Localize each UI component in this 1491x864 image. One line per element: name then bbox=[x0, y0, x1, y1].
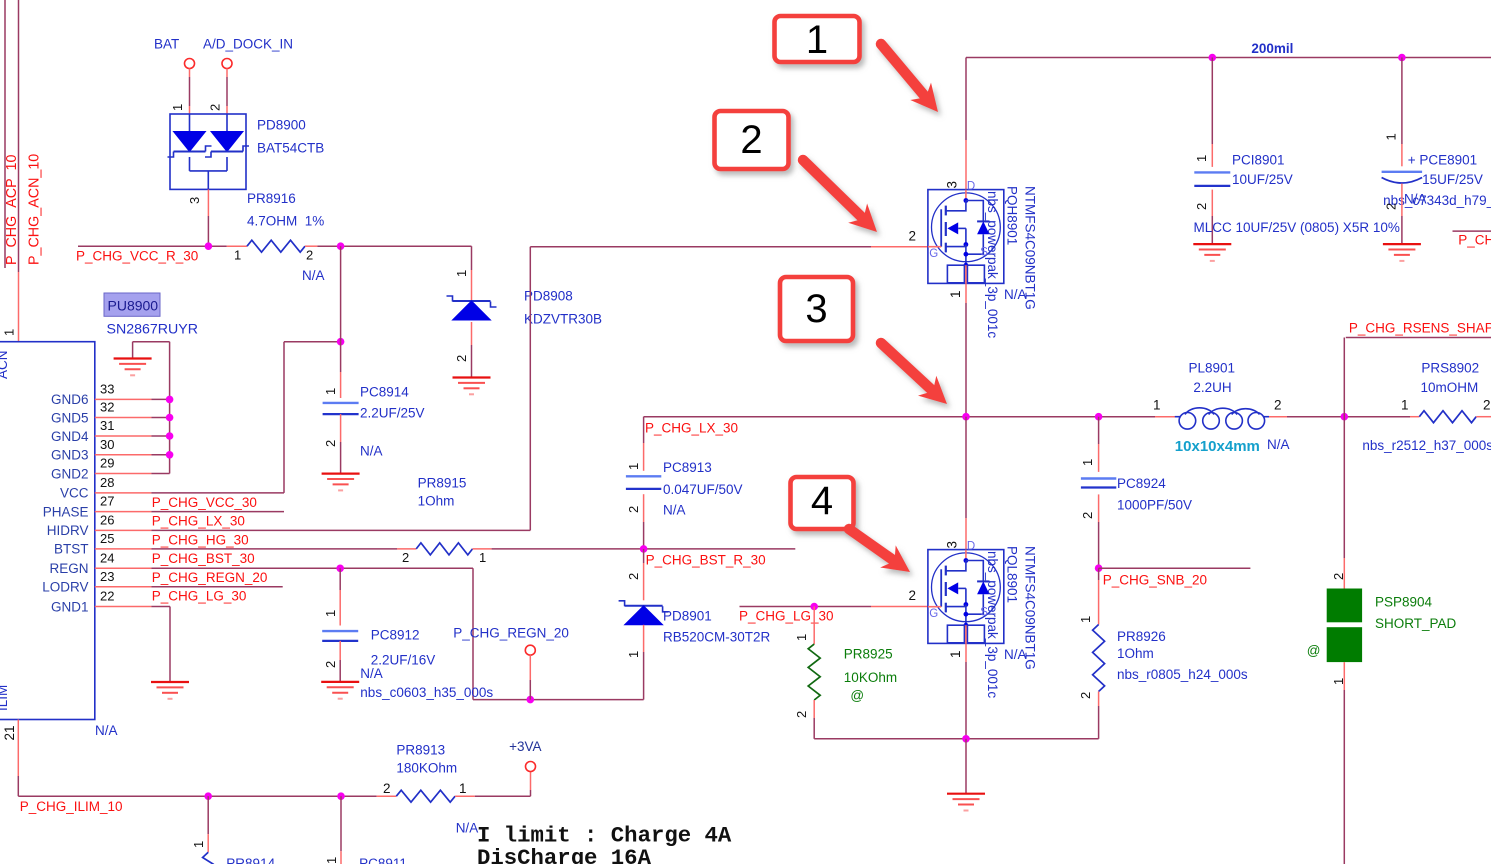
wire PQH8901 source to LX bbox=[965, 283, 967, 303]
svg-text:P_CHG_ACP_10: P_CHG_ACP_10 bbox=[4, 154, 20, 265]
wire PD8908 anode to ground bbox=[471, 322, 473, 345]
svg-text:P_CH: P_CH bbox=[1458, 233, 1491, 248]
svg-text:1Ohm: 1Ohm bbox=[418, 494, 455, 509]
wire PQH8901 drain bbox=[965, 58, 967, 141]
svg-text:PR8913: PR8913 bbox=[396, 743, 445, 758]
svg-text:2: 2 bbox=[626, 573, 641, 580]
svg-text:1: 1 bbox=[234, 248, 241, 263]
svg-text:1: 1 bbox=[626, 463, 641, 470]
wire to PC8911 bbox=[340, 796, 342, 851]
svg-text:nbs_powerpak_3p_001c: nbs_powerpak_3p_001c bbox=[985, 191, 1000, 338]
svg-text:2: 2 bbox=[208, 104, 223, 111]
pin line GND4 bbox=[95, 435, 152, 437]
pin line HIDRV bbox=[95, 529, 152, 531]
wire RSENS column down bbox=[1343, 338, 1345, 559]
svg-text:1: 1 bbox=[454, 270, 469, 277]
wire top 200mil net bbox=[966, 57, 1491, 59]
ground below PC8914 bbox=[322, 474, 360, 491]
wire to PR8914 bbox=[207, 796, 209, 834]
svg-text:2: 2 bbox=[383, 781, 391, 796]
pin line GND1 bbox=[95, 606, 152, 608]
svg-text:2: 2 bbox=[1194, 203, 1209, 210]
resistor PR8916 4.7OHM bbox=[247, 240, 305, 252]
svg-text:2: 2 bbox=[306, 248, 313, 263]
svg-text:10KOhm: 10KOhm bbox=[844, 670, 897, 685]
svg-text:2: 2 bbox=[402, 550, 409, 565]
svg-text:N/A: N/A bbox=[360, 666, 383, 681]
junction to VCC branch bbox=[337, 242, 345, 250]
wire A/D_DOCK_IN to PD8900 pin2 bbox=[226, 69, 228, 78]
svg-text:P_CHG_LG_30: P_CHG_LG_30 bbox=[152, 589, 247, 604]
svg-text:1: 1 bbox=[323, 610, 338, 617]
svg-text:PR8925: PR8925 bbox=[844, 647, 893, 662]
wire P_CHG_ILIM_10 bbox=[18, 795, 376, 797]
svg-text:1000PF/50V: 1000PF/50V bbox=[1117, 498, 1192, 513]
svg-text:2: 2 bbox=[1274, 398, 1282, 413]
pin line REGN bbox=[95, 567, 152, 569]
junction PR8925 bbox=[810, 603, 818, 611]
svg-text:1: 1 bbox=[1080, 459, 1095, 466]
resistor PR8925 10KOhm bbox=[813, 607, 815, 645]
capacitor PCI8901 10UF/25V bbox=[1194, 172, 1230, 186]
wire LX corner down to PC8913 bbox=[643, 417, 645, 443]
svg-text:N/A: N/A bbox=[1004, 647, 1027, 662]
junction PCE8901 bbox=[1398, 54, 1406, 62]
arrow 2 bbox=[803, 160, 877, 232]
wire after PL8901 bbox=[1269, 416, 1287, 418]
wire to power ground bbox=[965, 739, 967, 794]
GND bus top horizontal bbox=[133, 341, 170, 343]
ground below PQL8901 bbox=[947, 794, 985, 811]
junction LX at PQH source bbox=[962, 413, 970, 421]
svg-text:3: 3 bbox=[945, 541, 960, 549]
wire to PCI8901 bbox=[1211, 58, 1213, 145]
svg-text:P_CHG_HG_30: P_CHG_HG_30 bbox=[152, 532, 249, 547]
wire to PC8914 bbox=[340, 342, 342, 372]
svg-text:PU8900: PU8900 bbox=[108, 298, 159, 314]
wire to PCE8901 bbox=[1401, 58, 1403, 145]
svg-text:200mil: 200mil bbox=[1251, 41, 1293, 56]
svg-text:2: 2 bbox=[323, 661, 338, 668]
svg-text:25: 25 bbox=[100, 531, 114, 546]
svg-text:PCI8901: PCI8901 bbox=[1232, 153, 1285, 168]
callout 4 bbox=[791, 477, 854, 529]
svg-text:DisCharge 16A: DisCharge 16A bbox=[477, 845, 652, 864]
svg-text:PR8914: PR8914 bbox=[226, 856, 275, 864]
pin line LODRV bbox=[95, 586, 152, 588]
wire LX to PC8924 bbox=[1098, 417, 1100, 444]
svg-text:1: 1 bbox=[479, 550, 486, 565]
junction at PD8900 pin3 bbox=[205, 242, 213, 250]
junction GND3 bbox=[166, 451, 174, 459]
junction at RSENS column bbox=[1341, 413, 1349, 421]
svg-text:PC8924: PC8924 bbox=[1117, 476, 1166, 491]
junction PR8914 bbox=[204, 792, 212, 800]
svg-text:1: 1 bbox=[806, 18, 828, 62]
svg-text:PSP8904: PSP8904 bbox=[1375, 595, 1433, 610]
svg-text:2: 2 bbox=[323, 440, 338, 447]
transistor PQL8901 NTMFS4C09NBT1G bbox=[928, 540, 1004, 643]
svg-text:nbs_c7343d_h79_: nbs_c7343d_h79_ bbox=[1383, 193, 1491, 208]
svg-text:1: 1 bbox=[794, 634, 809, 641]
svg-text:PQL8901: PQL8901 bbox=[1005, 546, 1020, 603]
svg-text:N/A: N/A bbox=[1004, 287, 1027, 302]
wire P_CHG_ACP_10 vertical bbox=[4, 0, 6, 268]
svg-text:BTST: BTST bbox=[54, 542, 89, 557]
svg-text:P_CHG_BST_R_30: P_CHG_BST_R_30 bbox=[646, 553, 766, 568]
svg-text:1: 1 bbox=[1078, 616, 1093, 623]
svg-text:2: 2 bbox=[454, 355, 469, 362]
resistor PR8915 1Ohm bbox=[397, 548, 416, 550]
svg-text:P_CHG_REGN_20: P_CHG_REGN_20 bbox=[152, 570, 268, 585]
diode PD8901 RB520CM-30T2R bbox=[619, 601, 669, 625]
highlight PU8900 bbox=[104, 293, 160, 316]
junction GND6 bbox=[166, 396, 174, 404]
svg-text:180KOhm: 180KOhm bbox=[396, 761, 457, 776]
svg-text:2: 2 bbox=[1078, 692, 1093, 699]
resistor PR8926 1Ohm bbox=[1093, 625, 1105, 692]
svg-text:@: @ bbox=[1307, 643, 1321, 658]
pin line BTST bbox=[95, 548, 152, 550]
svg-text:2: 2 bbox=[740, 118, 762, 162]
svg-text:PD8901: PD8901 bbox=[663, 609, 712, 624]
pin 21 ILIM stub bbox=[17, 720, 19, 777]
wire P_CHG stub right edge bbox=[1453, 230, 1491, 232]
svg-text:D: D bbox=[967, 540, 975, 552]
junction source rail bbox=[962, 735, 970, 743]
junction PCI8901 bbox=[1209, 54, 1217, 62]
svg-text:PD8908: PD8908 bbox=[524, 289, 573, 304]
terminal P_CHG_REGN_20 bbox=[525, 645, 535, 655]
svg-text:BAT: BAT bbox=[154, 37, 179, 52]
arrow 3 bbox=[881, 343, 947, 404]
svg-text:PR8916: PR8916 bbox=[247, 191, 296, 206]
svg-text:10UF/25V: 10UF/25V bbox=[1232, 172, 1293, 187]
svg-text:P_CHG_VCC_30: P_CHG_VCC_30 bbox=[152, 495, 257, 510]
short pad PSP8904 bbox=[1327, 589, 1362, 623]
svg-text:1: 1 bbox=[2, 329, 17, 336]
diode PD8908 KDZVTR30B bbox=[447, 296, 497, 320]
svg-text:27: 27 bbox=[100, 494, 114, 509]
svg-text:SN2867RUYR: SN2867RUYR bbox=[107, 321, 198, 337]
wire after PR8916 bbox=[305, 245, 317, 247]
junction PC8912 bbox=[336, 565, 344, 573]
svg-text:RB520CM-30T2R: RB520CM-30T2R bbox=[663, 630, 771, 645]
svg-text:GND1: GND1 bbox=[51, 599, 89, 614]
wire to PC8912 bbox=[339, 568, 341, 590]
svg-text:nbs_powerpak_3p_001c: nbs_powerpak_3p_001c bbox=[985, 551, 1000, 698]
svg-text:1: 1 bbox=[948, 650, 963, 658]
junction P_CHG_SNB_20 bbox=[1095, 564, 1103, 572]
wire P_CHG_LX_30 bbox=[644, 416, 1155, 418]
wire P_CHG_HG_30 vertical bbox=[529, 247, 531, 531]
svg-text:1: 1 bbox=[324, 857, 339, 864]
svg-text:1: 1 bbox=[459, 781, 467, 796]
svg-text:GND4: GND4 bbox=[51, 429, 89, 444]
svg-text:MLCC 10UF/25V (0805) X5R 10%: MLCC 10UF/25V (0805) X5R 10% bbox=[1194, 220, 1400, 235]
ground at GND bus bbox=[132, 342, 134, 359]
svg-text:ACN: ACN bbox=[0, 350, 10, 379]
junction REGN terminal bbox=[527, 696, 535, 704]
svg-text:PC8914: PC8914 bbox=[360, 385, 409, 400]
svg-text:29: 29 bbox=[100, 456, 114, 471]
svg-text:N/A: N/A bbox=[1404, 192, 1427, 207]
svg-text:1: 1 bbox=[1153, 398, 1161, 413]
svg-text:P_CHG_LX_30: P_CHG_LX_30 bbox=[152, 514, 245, 529]
ground below PCI8901 bbox=[1193, 244, 1231, 261]
svg-text:10mOHM: 10mOHM bbox=[1421, 380, 1479, 395]
junction GND5 bbox=[166, 414, 174, 422]
svg-text:BAT54CTB: BAT54CTB bbox=[257, 141, 324, 156]
svg-text:PR8926: PR8926 bbox=[1117, 629, 1166, 644]
ground below PC8912 bbox=[321, 682, 359, 699]
svg-text:P_CHG_ILIM_10: P_CHG_ILIM_10 bbox=[20, 799, 123, 814]
resistor PR8914 partial bbox=[203, 852, 214, 864]
junction GND4 bbox=[166, 432, 174, 440]
svg-text:23: 23 bbox=[100, 569, 114, 584]
svg-text:REGN: REGN bbox=[49, 561, 88, 576]
svg-text:2: 2 bbox=[909, 588, 917, 603]
svg-text:PC8911: PC8911 bbox=[359, 856, 407, 864]
ground at GND1 bbox=[151, 682, 189, 699]
capacitor PC8913 0.047UF/50V bbox=[626, 476, 661, 489]
junction VCC node bbox=[337, 338, 345, 346]
svg-text:22: 22 bbox=[100, 589, 114, 604]
svg-text:PC8913: PC8913 bbox=[663, 460, 712, 475]
svg-text:G: G bbox=[929, 248, 938, 260]
svg-text:N/A: N/A bbox=[663, 503, 686, 518]
svg-text:3: 3 bbox=[187, 197, 202, 204]
svg-text:3: 3 bbox=[805, 287, 827, 331]
ground below PCE8901 bbox=[1383, 244, 1421, 261]
pin line GND2 bbox=[95, 473, 152, 475]
svg-text:N/A: N/A bbox=[302, 268, 325, 283]
svg-text:1: 1 bbox=[191, 841, 206, 848]
wire PQL8901 source down bbox=[965, 643, 967, 662]
pin line PHASE bbox=[95, 511, 152, 513]
svg-text:KDZVTR30B: KDZVTR30B bbox=[524, 312, 602, 327]
svg-text:GND2: GND2 bbox=[51, 466, 89, 481]
svg-text:10x10x4mm: 10x10x4mm bbox=[1175, 438, 1260, 455]
wire source rail bbox=[814, 738, 1098, 740]
svg-text:21: 21 bbox=[2, 725, 17, 740]
svg-text:PD8900: PD8900 bbox=[257, 118, 306, 133]
svg-text:SHORT_PAD: SHORT_PAD bbox=[1375, 616, 1457, 631]
svg-text:2: 2 bbox=[1483, 398, 1491, 413]
svg-text:24: 24 bbox=[100, 550, 114, 565]
wire PQL8901 drain bbox=[965, 417, 967, 518]
callout 1 bbox=[775, 16, 860, 62]
svg-text:PL8901: PL8901 bbox=[1189, 361, 1236, 376]
svg-text:4.7OHM 1%: 4.7OHM 1% bbox=[247, 214, 324, 229]
wire GND1 down bbox=[169, 607, 171, 683]
wire P_CHG_HG_30 to PQH8901 gate bbox=[530, 246, 871, 248]
wire P_CHG_RSENS_SHAPE bbox=[1346, 337, 1491, 339]
svg-text:nbs_c0603_h35_000s: nbs_c0603_h35_000s bbox=[360, 685, 493, 700]
svg-text:2: 2 bbox=[1384, 203, 1399, 210]
svg-text:GND6: GND6 bbox=[51, 392, 89, 407]
svg-text:nbs_r0805_h24_000s: nbs_r0805_h24_000s bbox=[1117, 667, 1248, 682]
svg-text:N/A: N/A bbox=[456, 821, 479, 836]
GND bus vertical bbox=[169, 342, 171, 474]
svg-text:PQH8901: PQH8901 bbox=[1005, 186, 1020, 245]
capacitor PC8924 1000PF/50V bbox=[1081, 479, 1116, 488]
wire P_CHG_ACN_10 vertical bbox=[18, 0, 20, 272]
svg-text:PR8915: PR8915 bbox=[418, 476, 467, 491]
diode PD8900 BAT54CTB bbox=[168, 114, 250, 189]
svg-text:2: 2 bbox=[1080, 512, 1095, 519]
wire BAT to PD8900 pin1 bbox=[189, 69, 191, 78]
svg-text:P_CHG_REGN_20: P_CHG_REGN_20 bbox=[453, 626, 569, 641]
svg-text:26: 26 bbox=[100, 512, 114, 527]
svg-text:N/A: N/A bbox=[95, 723, 118, 738]
svg-text:31: 31 bbox=[100, 418, 114, 433]
svg-text:P_CHG_VCC_R_30: P_CHG_VCC_R_30 bbox=[76, 249, 198, 264]
arrow 4 bbox=[849, 529, 910, 572]
svg-text:1: 1 bbox=[626, 651, 641, 658]
svg-text:15UF/25V: 15UF/25V bbox=[1422, 172, 1483, 187]
svg-text:28: 28 bbox=[100, 475, 114, 490]
svg-text:1: 1 bbox=[170, 104, 185, 111]
svg-text:2: 2 bbox=[909, 229, 917, 244]
svg-text:P_CHG_LG_30: P_CHG_LG_30 bbox=[739, 609, 834, 624]
svg-text:nbs_r2512_h37_000s: nbs_r2512_h37_000s bbox=[1362, 438, 1491, 453]
wire VCC up bbox=[283, 342, 285, 493]
wire VCC column from P_CHG_VCC_R_30 bbox=[340, 246, 342, 342]
svg-text:4: 4 bbox=[811, 479, 833, 523]
callout 3 bbox=[780, 277, 853, 341]
capacitor PC8912 2.2UF/16V bbox=[322, 631, 358, 641]
svg-text:3: 3 bbox=[945, 181, 960, 189]
svg-text:1: 1 bbox=[948, 290, 963, 298]
svg-text:LODRV: LODRV bbox=[42, 580, 88, 595]
svg-text:P_CHG_LX_30: P_CHG_LX_30 bbox=[645, 421, 738, 436]
svg-text:D: D bbox=[967, 180, 975, 192]
capacitor PCE8901 15UF/25V polarized bbox=[1382, 172, 1423, 183]
pin line VCC bbox=[95, 492, 152, 494]
svg-text:32: 32 bbox=[100, 400, 114, 415]
pin line GND5 bbox=[95, 417, 152, 419]
svg-text:@: @ bbox=[850, 688, 864, 703]
svg-text:P_CHG_ACN_10: P_CHG_ACN_10 bbox=[27, 154, 43, 265]
svg-text:PRS8902: PRS8902 bbox=[1421, 361, 1479, 376]
wire down to PD8908 bbox=[471, 246, 473, 270]
svg-text:1: 1 bbox=[1194, 155, 1209, 162]
svg-text:1: 1 bbox=[323, 388, 338, 395]
capacitor PC8914 2.2UF/25V bbox=[323, 403, 359, 414]
junction LX at PC8924 bbox=[1095, 413, 1103, 421]
svg-text:1Ohm: 1Ohm bbox=[1117, 646, 1154, 661]
svg-text:ILIM: ILIM bbox=[0, 685, 10, 711]
transistor PQH8901 NTMFS4C09NBT1G bbox=[928, 180, 1004, 283]
svg-text:+ PCE8901: + PCE8901 bbox=[1408, 153, 1477, 168]
wire P_CHG_SNB_20 bbox=[1099, 567, 1251, 569]
IC PU8900 SN2867RUYR body bbox=[0, 342, 95, 720]
svg-text:P_CHG_BST_30: P_CHG_BST_30 bbox=[152, 551, 255, 566]
pin line GND6 bbox=[95, 398, 152, 400]
svg-text:G: G bbox=[929, 608, 938, 620]
resistor PRS8902 10mOHM bbox=[1410, 416, 1419, 418]
junction BST_R bbox=[640, 545, 648, 553]
wire SNB to PR8926 bbox=[1098, 568, 1100, 580]
wire BST_R to PD8901 bbox=[643, 549, 645, 563]
wire P_CHG_VCC_R_30 bbox=[78, 245, 227, 247]
terminal +3VA bbox=[530, 790, 532, 796]
svg-text:P_CHG_SNB_20: P_CHG_SNB_20 bbox=[1103, 573, 1207, 588]
svg-text:0.047UF/50V: 0.047UF/50V bbox=[663, 482, 743, 497]
svg-text:P_CHG_RSENS_SHAPE: P_CHG_RSENS_SHAPE bbox=[1349, 321, 1491, 336]
svg-text:VCC: VCC bbox=[60, 486, 89, 501]
resistor PR8913 180KOhm bbox=[377, 795, 397, 797]
svg-text:GND3: GND3 bbox=[51, 448, 89, 463]
svg-text:PC8912: PC8912 bbox=[371, 628, 420, 643]
svg-text:2: 2 bbox=[794, 711, 809, 718]
arrow 1 bbox=[881, 44, 938, 112]
svg-text:PHASE: PHASE bbox=[43, 504, 89, 519]
svg-text:N/A: N/A bbox=[1267, 437, 1290, 452]
callout 2 bbox=[715, 111, 789, 169]
ground below PD8908 bbox=[453, 378, 491, 395]
svg-text:A/D_DOCK_IN: A/D_DOCK_IN bbox=[203, 37, 293, 52]
svg-text:+3VA: +3VA bbox=[509, 739, 541, 754]
wire REGN to the right bbox=[472, 568, 474, 699]
svg-text:30: 30 bbox=[100, 437, 114, 452]
pin line GND3 bbox=[95, 454, 152, 456]
svg-text:2: 2 bbox=[1331, 573, 1346, 580]
wire PD8900 pin3 down bbox=[207, 189, 209, 216]
svg-text:GND5: GND5 bbox=[51, 410, 89, 425]
svg-text:1: 1 bbox=[1384, 133, 1399, 140]
wire P_CHG_LG_30 bbox=[740, 606, 872, 608]
svg-text:N/A: N/A bbox=[360, 444, 383, 459]
svg-text:33: 33 bbox=[100, 381, 114, 396]
svg-text:HIDRV: HIDRV bbox=[47, 523, 89, 538]
svg-text:2.2UF/25V: 2.2UF/25V bbox=[360, 406, 425, 421]
svg-text:1: 1 bbox=[1401, 398, 1409, 413]
svg-text:2.2UH: 2.2UH bbox=[1193, 380, 1231, 395]
junction PC8911 bbox=[337, 792, 345, 800]
svg-text:2: 2 bbox=[626, 506, 641, 513]
